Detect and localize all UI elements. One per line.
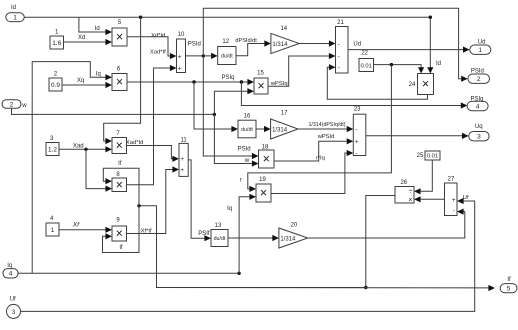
sum block 21 Ud [336, 27, 349, 74]
node PSId 4-way junction [202, 54, 205, 57]
svg-text:+: + [452, 197, 456, 204]
svg-text:×: × [422, 77, 429, 91]
svg-text:×: × [116, 227, 123, 241]
svg-text:1: 1 [13, 15, 17, 22]
input port 4 Iq [3, 269, 18, 278]
svg-text:-: - [355, 126, 357, 133]
node Xad junction [84, 148, 87, 151]
svg-text:Uq: Uq [475, 124, 483, 130]
output port 5 If [500, 284, 517, 293]
node Id junction [139, 16, 142, 19]
svg-text:Xad: Xad [73, 144, 84, 150]
wire Id branch down to block 7 [104, 17, 141, 141]
svg-text:+: + [180, 167, 184, 174]
svg-text:21: 21 [337, 20, 344, 26]
constant block 3 value 1.2 [46, 143, 59, 156]
gain block 20 1/314 [279, 228, 308, 248]
svg-text:1: 1 [51, 227, 55, 234]
wire Iq riser to block 6 [32, 62, 105, 274]
svg-text:PSIq: PSIq [221, 75, 234, 81]
wire to gain 20 [228, 237, 273, 239]
wire 0.01 to block 24 [374, 65, 422, 68]
wire PSIq from block 6 [127, 81, 248, 83]
wire PSIf to du/dt 13 [188, 160, 204, 238]
wire Xad*Id to sum 11 [127, 146, 173, 159]
svg-text:If: If [118, 161, 122, 167]
svg-text:w: w [244, 158, 250, 164]
svg-text:-: - [453, 208, 455, 215]
wire r*Id loop to sum 21 [327, 67, 427, 99]
svg-text:wPSId: wPSId [317, 134, 335, 140]
svg-text:Id: Id [95, 26, 100, 32]
svg-text:+: + [180, 156, 184, 163]
svg-text:PSId: PSId [238, 147, 251, 153]
sum block 11 PSIf [179, 143, 188, 176]
svg-text:Ud: Ud [478, 39, 486, 45]
wire to gain 17 [256, 128, 264, 130]
wire wPSIq riser to sum 21 [268, 56, 329, 86]
svg-text:r*Iq: r*Iq [316, 156, 325, 162]
wire Iq riser to block 19 [239, 197, 250, 273]
wire Ud to output port 1 [348, 49, 463, 51]
wire sum 27 output to divide 26 [421, 198, 445, 200]
svg-text:20: 20 [291, 222, 298, 228]
output port 4 PSIq [467, 101, 488, 110]
wire Id main from port 1 [24, 17, 430, 68]
svg-text:5: 5 [507, 286, 511, 293]
wire If line to output port 5 [157, 287, 489, 289]
output port 3 Uq [469, 132, 489, 141]
svg-text:×: × [263, 152, 270, 166]
svg-text:0.01: 0.01 [361, 64, 372, 70]
wire w from port 2 [12, 108, 215, 114]
svg-text:If: If [507, 277, 511, 283]
wire PSIq to output port 4 [241, 82, 461, 106]
svg-text:dPSId/dt: dPSId/dt [235, 38, 257, 44]
svg-text:25: 25 [417, 153, 424, 159]
svg-text:1/314(dPSIq/dt): 1/314(dPSIq/dt) [308, 122, 345, 128]
svg-text:Xd*Id: Xd*Id [151, 33, 165, 39]
node Id branch to block 5 [79, 17, 106, 32]
svg-text:26: 26 [400, 180, 407, 186]
input port 2 w [2, 100, 21, 108]
constant block 2 value 0.9 [49, 78, 62, 91]
node 0.01 junction [390, 63, 393, 66]
divide block 26 If [395, 187, 414, 204]
wire Xad down to block 8 [86, 149, 106, 188]
wire Xf to block 9 [59, 229, 106, 231]
derivative block 13 du/dt [211, 230, 228, 247]
svg-text:Iq: Iq [96, 72, 101, 78]
input port 3 Uf [7, 304, 21, 318]
svg-text:4: 4 [9, 271, 13, 278]
svg-text:PSId: PSId [188, 41, 201, 47]
svg-text:19: 19 [259, 177, 266, 183]
svg-text:1.6: 1.6 [52, 40, 61, 47]
svg-text:du/dt: du/dt [221, 54, 233, 60]
multiply block 18 wPSId [259, 150, 275, 168]
wire dPSId/dt to gain 14 [236, 44, 264, 56]
multiply block 5 Xd*Id [112, 28, 127, 46]
wire PSId down to block 18 [203, 56, 252, 156]
svg-text:0.9: 0.9 [51, 82, 60, 89]
svg-text:×: × [260, 186, 267, 200]
multiply block 15 wPSIq [254, 78, 268, 94]
svg-text:×: × [116, 139, 123, 153]
svg-text:-: - [355, 150, 357, 157]
wire Xad to block 7 [59, 148, 106, 150]
wire gain 14 to sum 21 [299, 43, 329, 45]
wire w down to block 18 [214, 114, 252, 163]
svg-text:11: 11 [180, 138, 187, 144]
wire Xf*If riser to sum 11 [127, 170, 173, 234]
node PSIq junction to du/dt 16 [192, 80, 195, 83]
svg-text:18: 18 [262, 145, 269, 151]
constant block 1 value 1.6 [50, 36, 64, 49]
multiply block 24 r*Id [418, 74, 434, 95]
svg-text:1/314: 1/314 [272, 42, 288, 48]
multiply block 7 Xad*Id [112, 138, 127, 154]
svg-text:13: 13 [215, 223, 222, 229]
svg-text:wPSIq: wPSIq [270, 81, 288, 87]
svg-text:Iq: Iq [7, 263, 12, 269]
node Iq junction [237, 272, 240, 275]
svg-text:÷: ÷ [408, 189, 412, 196]
gain block 14 1/314 [271, 33, 299, 53]
svg-text:+: + [178, 65, 182, 72]
constant block 4 value 1 [46, 223, 59, 236]
svg-text:Id: Id [436, 61, 441, 67]
wire If up to block 8 [103, 168, 139, 206]
node w junction [213, 113, 216, 116]
svg-text:15: 15 [257, 71, 264, 77]
svg-text:23: 23 [354, 107, 361, 113]
node If junction [364, 286, 367, 289]
svg-text:1.2: 1.2 [48, 147, 57, 154]
svg-text:27: 27 [448, 176, 455, 182]
wire r*Iq to sum 23 [271, 153, 347, 194]
node If junction left [137, 204, 140, 207]
gain block 17 1/314 [271, 119, 298, 139]
derivative block 12 du/dt [218, 47, 236, 65]
wire Xd*Id to sum 10 [127, 37, 170, 56]
svg-text:×: × [257, 79, 264, 93]
wire 1/314 dPSIf/dt to sum 27 [308, 212, 465, 238]
wire If down to block 9 [103, 206, 140, 253]
sum block 27 Uf minus dPSIf [445, 183, 458, 216]
svg-text:17: 17 [281, 111, 288, 117]
wire Xq [62, 84, 106, 86]
svg-text:w: w [21, 103, 27, 109]
svg-text:1/314: 1/314 [272, 127, 288, 133]
svg-text:×: × [116, 75, 123, 89]
multiply block 19 r*Iq [256, 184, 271, 202]
svg-text:Iq: Iq [227, 206, 232, 212]
sum block 23 Uq [353, 114, 366, 155]
svg-text:r: r [240, 178, 242, 184]
svg-text:2: 2 [477, 76, 481, 83]
output port 2 PSId [468, 74, 490, 83]
svg-text:2: 2 [10, 101, 14, 108]
svg-text:22: 22 [361, 51, 368, 57]
svg-text:-: - [338, 41, 340, 48]
svg-text:Xad*If: Xad*If [150, 49, 166, 55]
svg-text:10: 10 [178, 32, 185, 38]
wire If left run [139, 206, 366, 288]
svg-text:Xd: Xd [78, 35, 85, 41]
wire PSId output [186, 55, 212, 57]
multiply block 8 Xad*If [112, 178, 127, 192]
svg-text:PSIq: PSIq [470, 96, 483, 102]
node Id corner at block 24 [429, 16, 432, 19]
svg-text:If: If [119, 245, 123, 251]
wire Xd [64, 41, 106, 43]
wire Uq to output port 3 [366, 135, 462, 137]
wire w riser to block 15 [214, 91, 247, 114]
wire Xad*If riser to sum 10 [127, 68, 171, 185]
svg-text:PSIf: PSIf [198, 231, 210, 237]
svg-text:24: 24 [409, 82, 416, 88]
sum block 10 PSId [177, 39, 186, 73]
input port 1 Id [6, 13, 24, 22]
svg-text:×: × [116, 178, 123, 192]
svg-text:12: 12 [222, 39, 229, 45]
wire If from divide 26 down to If line [366, 196, 395, 288]
constant block 25 value 0.01 [425, 151, 440, 160]
svg-text:0.01: 0.01 [427, 154, 438, 160]
svg-text:+: + [355, 139, 359, 146]
wire 0.01 down to block 19 [248, 65, 392, 189]
svg-text:Xf: Xf [72, 222, 80, 229]
svg-text:-: - [338, 65, 340, 72]
svg-text:1/314: 1/314 [280, 236, 296, 242]
node PSIq junction to output 4 [240, 80, 243, 83]
wire 0.01 to divide 26 [421, 160, 433, 191]
svg-text:×: × [116, 30, 123, 44]
derivative block 16 du/dt [238, 120, 256, 138]
svg-text:Uf: Uf [10, 297, 16, 303]
svg-text:14: 14 [280, 26, 287, 32]
svg-text:Xad*Id: Xad*Id [126, 140, 143, 146]
svg-text:du/dt: du/dt [241, 127, 253, 133]
wire 1/314(dPSIq/dt) to sum 23 [298, 128, 347, 130]
wire PSId top run to output port 2 [203, 8, 461, 78]
svg-text:×: × [408, 197, 412, 204]
svg-text:+: + [178, 53, 182, 60]
wire Uf from port 3 to sum 27 [21, 201, 475, 311]
wire PSIq down to block 16 [194, 82, 232, 129]
output port 1 Ud [470, 45, 491, 54]
svg-text:du/dt: du/dt [214, 236, 226, 242]
svg-text:3: 3 [477, 134, 481, 141]
svg-text:-: - [338, 53, 340, 60]
wire wPSId to sum 23 [274, 141, 347, 161]
svg-text:Ud: Ud [353, 41, 361, 47]
multiply block 6 Xq*Iq [112, 74, 127, 91]
svg-text:16: 16 [244, 113, 251, 119]
svg-text:PSId: PSId [471, 69, 484, 75]
svg-text:Uf: Uf [463, 195, 469, 201]
svg-text:Xq: Xq [77, 78, 84, 84]
svg-text:Id: Id [11, 5, 16, 11]
svg-text:Xf*If: Xf*If [141, 228, 152, 234]
svg-text:1: 1 [478, 47, 482, 54]
constant block 22 value 0.01 [359, 59, 374, 72]
wire Iq main from port 4 [18, 272, 239, 274]
svg-text:4: 4 [476, 103, 480, 110]
multiply block 9 Xf*If [112, 226, 127, 241]
